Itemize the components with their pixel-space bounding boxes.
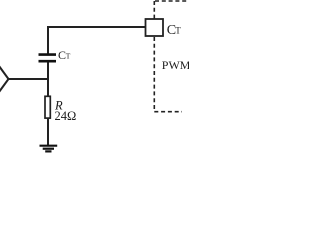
svg-text:PWM: PWM <box>162 58 189 72</box>
svg-text:T: T <box>175 26 181 36</box>
svg-text:24Ω: 24Ω <box>55 109 77 123</box>
svg-text:T: T <box>66 51 71 60</box>
